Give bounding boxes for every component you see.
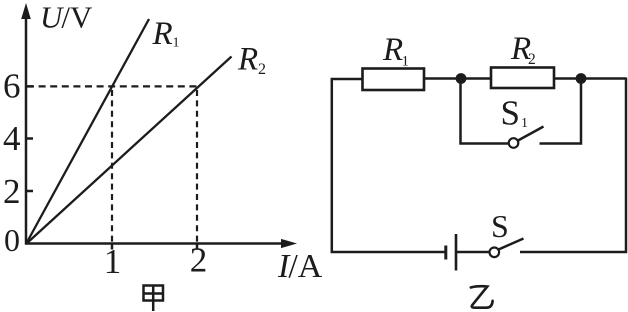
y tick label 6 xyxy=(3,67,21,106)
switch S1 blade xyxy=(518,127,544,141)
label S1 xyxy=(501,94,529,133)
switch S1 pivot xyxy=(509,138,519,148)
label R1 on circuit xyxy=(382,32,409,70)
label R2 on graph xyxy=(237,42,266,79)
svg-text:1: 1 xyxy=(173,36,180,51)
switch S pivot xyxy=(490,248,500,258)
label R2 on circuit xyxy=(510,31,536,68)
y tick 6 xyxy=(26,85,33,88)
wire R2 to right corner xyxy=(554,77,626,80)
x tick 1 xyxy=(111,244,114,250)
label R1 on graph xyxy=(152,16,180,52)
y tick label 4 xyxy=(3,119,21,158)
x tick label 1 xyxy=(104,242,122,281)
svg-text:R: R xyxy=(382,32,403,68)
x tick 2 xyxy=(196,244,199,250)
svg-text:0: 0 xyxy=(4,222,20,258)
axis label I/A xyxy=(277,248,323,285)
svg-text:2: 2 xyxy=(528,51,536,68)
svg-text:4: 4 xyxy=(3,119,21,158)
switch S blade xyxy=(499,239,524,250)
origin label 0 xyxy=(4,222,20,258)
resistor R2 xyxy=(491,68,554,89)
wire circuit left side xyxy=(332,79,445,252)
svg-text:S: S xyxy=(501,94,520,133)
battery positive plate xyxy=(455,234,458,271)
node junction left xyxy=(456,73,467,84)
svg-text:R: R xyxy=(152,16,173,52)
y tick 2 xyxy=(26,190,33,193)
wire right side xyxy=(520,78,626,253)
resistor R1 xyxy=(363,69,425,91)
svg-text:I/A: I/A xyxy=(277,248,323,285)
dashed line I=1 xyxy=(111,90,113,243)
svg-text:U/V: U/V xyxy=(40,0,93,35)
x tick label 2 xyxy=(190,241,208,280)
wire between R1 and R2 xyxy=(424,77,491,80)
node junction right xyxy=(576,73,587,84)
svg-text:6: 6 xyxy=(3,67,21,106)
wire S1 branch left xyxy=(461,83,509,144)
svg-text:1: 1 xyxy=(521,116,528,131)
axis label U/V xyxy=(40,0,93,35)
wire battery to switch S xyxy=(456,251,490,254)
y tick 4 xyxy=(26,137,33,140)
wire S1 branch right xyxy=(540,83,582,144)
svg-text:2: 2 xyxy=(3,172,21,211)
caption 乙 xyxy=(471,286,493,307)
graph y-axis U xyxy=(21,3,31,245)
dashed line I=2 xyxy=(196,90,198,243)
svg-text:2: 2 xyxy=(190,241,208,280)
graph x-axis I xyxy=(25,239,297,248)
svg-text:S: S xyxy=(491,208,509,244)
caption 甲 xyxy=(144,286,164,312)
battery negative plate xyxy=(444,246,447,260)
svg-text:R: R xyxy=(237,42,258,78)
label S xyxy=(491,208,509,244)
svg-text:1: 1 xyxy=(402,54,410,70)
svg-text:2: 2 xyxy=(258,61,266,78)
y tick label 2 xyxy=(3,172,21,211)
svg-text:1: 1 xyxy=(104,242,122,281)
dashed line U=6 xyxy=(27,85,197,87)
line R1 characteristic xyxy=(26,19,149,244)
line R2 characteristic xyxy=(26,57,232,245)
